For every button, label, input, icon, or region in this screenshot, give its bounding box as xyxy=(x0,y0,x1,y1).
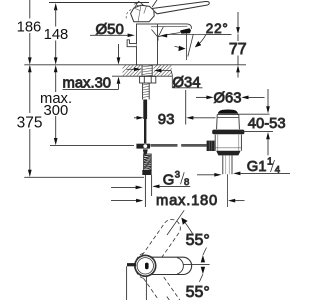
lever knob xyxy=(131,5,155,22)
leader to lower 55 xyxy=(199,274,203,282)
faucet body xyxy=(137,24,158,65)
G1 1/4 left arrow xyxy=(197,174,215,176)
plug dome xyxy=(218,110,238,114)
faucet internal V seam xyxy=(152,27,164,41)
drain body xyxy=(215,135,241,151)
threaded rod below nut xyxy=(143,83,150,100)
rod cross joint xyxy=(136,144,150,149)
faucet spout xyxy=(158,24,192,29)
svg-text:300: 300 xyxy=(44,103,69,119)
side knob xyxy=(207,141,216,151)
top view capsule (spout) xyxy=(149,257,192,274)
pull rod xyxy=(143,100,147,120)
extension line from circle bottom xyxy=(145,276,147,300)
upper cylinder xyxy=(217,115,240,129)
dimension 375 vertical line xyxy=(29,66,31,113)
axis line right xyxy=(184,263,210,265)
label G1 1/4 xyxy=(233,172,240,176)
40-53 bottom reference xyxy=(240,131,273,133)
svg-text:22°: 22° xyxy=(206,21,229,36)
22deg slanted stream line xyxy=(188,35,193,57)
tail centerline xyxy=(226,174,228,207)
aerator xyxy=(180,28,191,33)
svg-text:148: 148 xyxy=(44,27,69,43)
svg-text:G1: G1 xyxy=(247,159,267,175)
countertop bottom line xyxy=(112,75,172,77)
label O34 xyxy=(127,68,135,70)
40-53 top reference xyxy=(237,113,270,115)
svg-text:Ø63: Ø63 xyxy=(214,90,242,106)
22deg vertical reference line xyxy=(186,34,188,61)
svg-text:55°: 55° xyxy=(186,232,210,249)
label G3/8 xyxy=(152,185,159,189)
pull-rod knob behind body xyxy=(127,40,136,47)
svg-text:Ø34: Ø34 xyxy=(173,75,201,91)
svg-text:1: 1 xyxy=(267,156,273,168)
faucet shank through counter xyxy=(142,65,152,76)
375 bottom reference line xyxy=(24,176,144,178)
svg-text:3: 3 xyxy=(175,170,180,181)
handle slot xyxy=(145,263,149,270)
label O63 xyxy=(196,96,207,98)
dashed swing capsule lower xyxy=(131,253,184,300)
texts xyxy=(17,19,72,131)
horizontal pop-up rod xyxy=(50,145,134,147)
svg-text:G: G xyxy=(163,173,175,189)
svg-text:max.180: max.180 xyxy=(156,193,218,209)
22deg reference line xyxy=(168,33,232,35)
shank nut xyxy=(140,76,156,83)
supply pipe xyxy=(144,175,146,207)
svg-text:8: 8 xyxy=(184,177,189,188)
dimension 148 vertical line xyxy=(54,3,58,10)
supply arrow xyxy=(111,186,136,188)
countertop top line xyxy=(24,64,246,66)
tailpipe xyxy=(222,155,224,174)
angle arrows xyxy=(201,255,205,262)
dimension max180 xyxy=(111,200,137,202)
dashed hidden arc at lever xyxy=(126,9,132,18)
dimension 186 vertical line xyxy=(29,0,31,19)
svg-text:40-53: 40-53 xyxy=(248,116,286,132)
svg-text:93: 93 xyxy=(158,111,175,128)
dashed swing capsule upper xyxy=(131,215,184,279)
leader to upper 55 xyxy=(203,248,207,256)
lever scribble xyxy=(134,1,143,8)
hose nut G3/8 xyxy=(142,170,151,175)
lever blade xyxy=(151,1,209,13)
braided hose xyxy=(144,154,152,170)
top reference line (lever height) xyxy=(49,2,149,4)
extension line from bar xyxy=(126,266,128,300)
countertop hatching left xyxy=(123,65,142,76)
svg-text:375: 375 xyxy=(17,114,43,131)
top view body circle xyxy=(135,255,156,276)
lever stub line xyxy=(152,0,157,7)
svg-text:55°: 55° xyxy=(186,284,210,300)
countertop hatching right xyxy=(154,65,173,76)
rod to drain (thick) xyxy=(150,144,177,147)
svg-text:4: 4 xyxy=(275,165,280,176)
dimension max300 vertical line xyxy=(54,65,58,72)
connector below cross xyxy=(143,149,148,154)
dimension 77 xyxy=(237,12,239,28)
22deg angle arrows and leader xyxy=(175,46,180,47)
svg-text:186: 186 xyxy=(17,19,42,35)
connection bar left xyxy=(127,263,136,266)
body bottom nut xyxy=(216,151,240,156)
flange xyxy=(212,130,244,135)
